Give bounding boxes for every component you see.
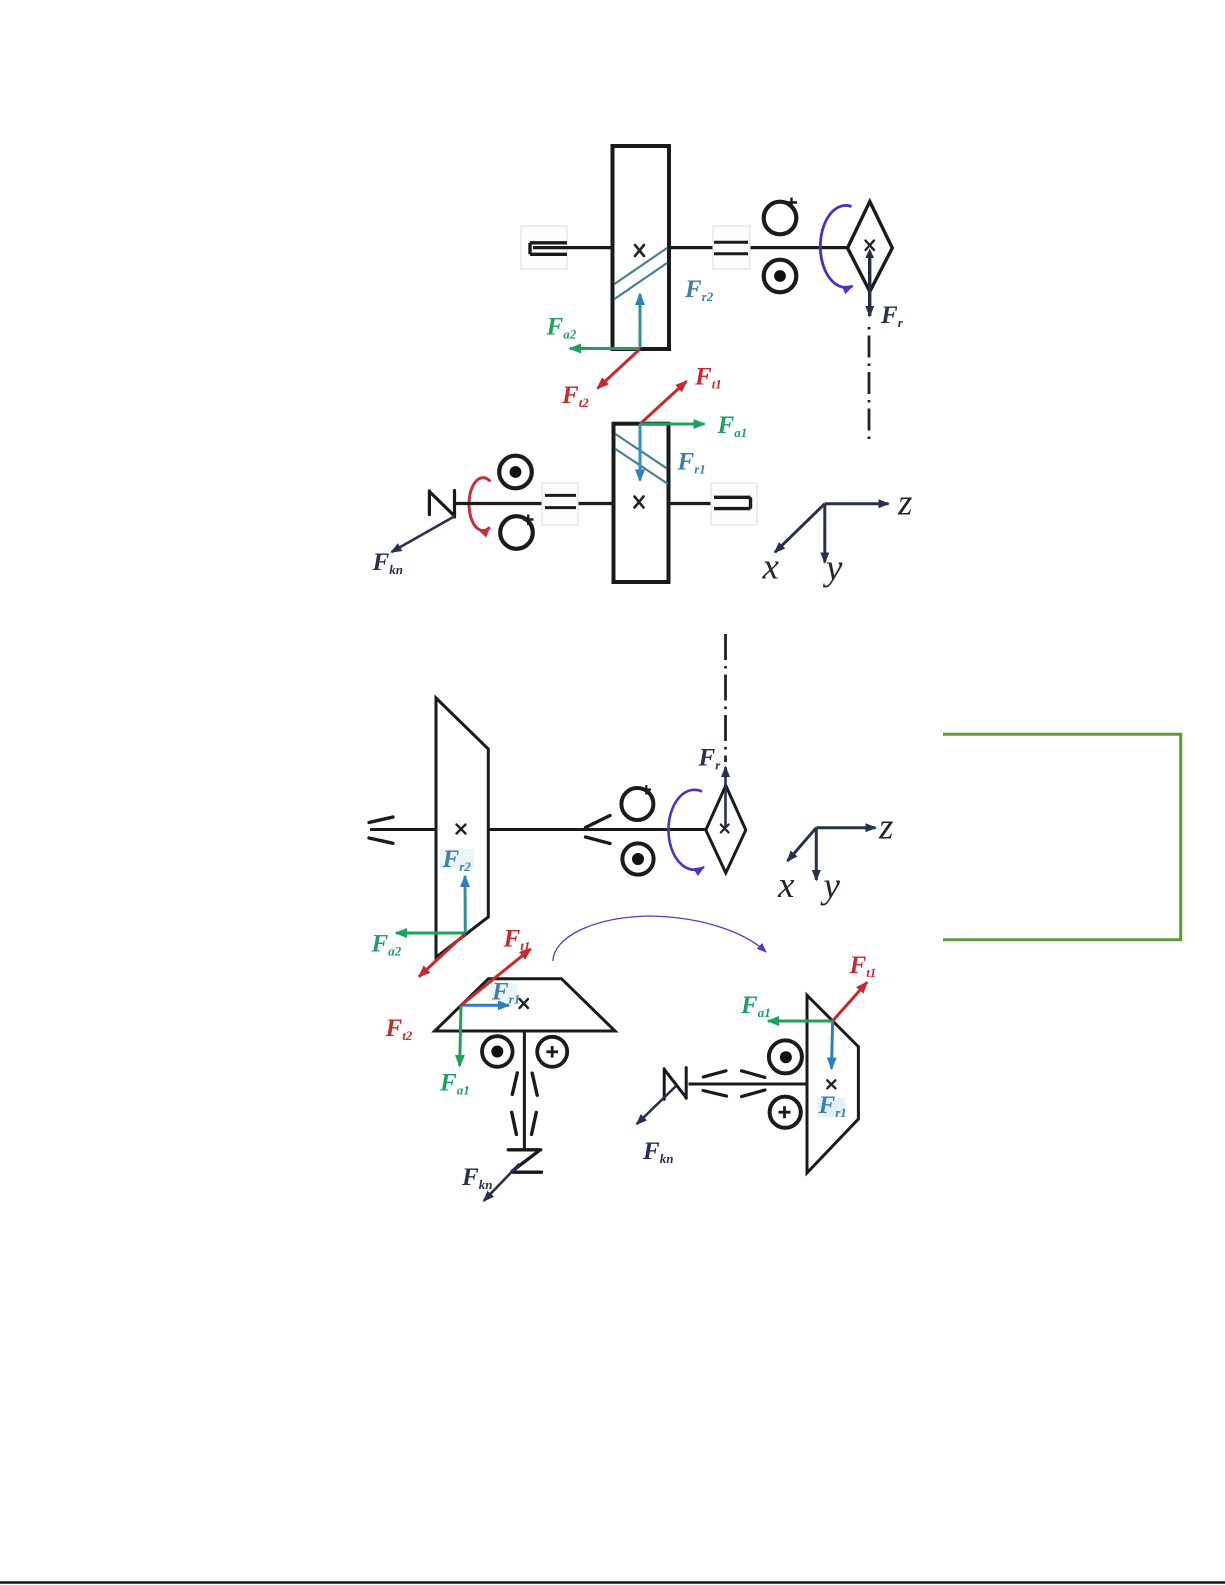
coupling N symbol (bottom-right assembly) xyxy=(664,1068,686,1100)
gear 1 body xyxy=(614,424,669,582)
gear 1 body (perspective side, bottom-right) xyxy=(807,995,858,1173)
svg-text:Ft2: Ft2 xyxy=(385,1015,413,1043)
force arrow Fr (bottom, up) xyxy=(724,767,727,827)
dot circle symbol (bottom-right, above shaft) xyxy=(769,1040,802,1073)
coordinate axes (top): z axis xyxy=(825,502,889,505)
green callout box (open left) xyxy=(943,734,1181,940)
plus circle symbol (bottom-right, below shaft) xyxy=(770,1097,801,1128)
label z (top) xyxy=(897,483,912,524)
gear 2 body xyxy=(613,146,670,349)
center mark x gear1 trapezoid xyxy=(520,999,529,1008)
force arrow Ft1 (top) xyxy=(640,381,687,424)
svg-text:Ft1: Ft1 xyxy=(503,926,531,954)
svg-text:Fa1: Fa1 xyxy=(717,412,748,440)
coordinate axes (top): x axis xyxy=(775,504,825,553)
label y (bottom) xyxy=(820,866,841,907)
force arrow Ft2 (top) xyxy=(598,349,641,388)
center mark x diamond xyxy=(866,241,875,251)
center mark x diamond (bottom) xyxy=(721,825,729,833)
svg-text:Fr2: Fr2 xyxy=(684,276,714,304)
label y (top) xyxy=(822,548,843,589)
svg-text:Fr: Fr xyxy=(698,745,722,773)
label Fr2 (bottom) xyxy=(440,846,474,874)
bearing housing box (light) shaft1 left xyxy=(542,483,578,525)
dash-dot axis line below diamond xyxy=(868,327,871,445)
label Fa1 (top) xyxy=(717,412,748,440)
force arrow Ft2 (bottom) xyxy=(419,934,465,977)
svg-text:Fr1: Fr1 xyxy=(677,449,706,477)
vertical shaft (trapezoid assembly) xyxy=(523,1031,526,1150)
force arrow Fkn (bottom-left) xyxy=(484,1164,520,1201)
svg-text:Fa2: Fa2 xyxy=(371,931,402,959)
dash-dot axis line above diamond (bottom) xyxy=(724,634,727,762)
svg-text:Fa2: Fa2 xyxy=(546,314,577,342)
force arrow Fa2 (top) xyxy=(570,347,640,350)
force arrow Fa1 (top) xyxy=(640,423,705,426)
force arrow Fr1 (bottom-right, down) xyxy=(832,1021,833,1069)
force arrow Fa1 (bottom-right) xyxy=(768,1020,833,1023)
label Fr2 (top) xyxy=(684,276,714,304)
label Fkn (bottom-right) xyxy=(642,1138,673,1166)
label Fkn (bottom-left) xyxy=(461,1164,492,1192)
label Ft1 (trapezoid) xyxy=(503,926,531,954)
coupling diamond (bottom) xyxy=(706,786,746,874)
force arrow Fr2 (top) xyxy=(639,294,642,348)
dot circle symbol (left of vertical shaft) xyxy=(482,1036,513,1067)
force arrow Ft1 (trapezoid, up-right) xyxy=(461,949,531,1005)
label Ft2 (top) xyxy=(561,382,589,410)
label Ft1 (top) xyxy=(694,364,722,392)
label Fa1 (trapezoid) xyxy=(439,1070,470,1098)
svg-text:Ft1: Ft1 xyxy=(694,364,722,392)
svg-text:Fa1: Fa1 xyxy=(740,992,771,1020)
bearing housing box (light) shaft2 right xyxy=(713,226,750,269)
rotation arrow (blue) bottom diamond xyxy=(668,790,704,870)
gear 1 trapezoid (perspective front) xyxy=(435,979,615,1031)
label Fa2 (bottom) xyxy=(371,931,402,959)
coordinate axes (top): y axis xyxy=(823,504,826,563)
horizontal shaft (bottom-right assembly) xyxy=(689,1083,808,1086)
shaft 1 right segment xyxy=(668,502,748,505)
label Fa1 (bottom-right) xyxy=(740,992,771,1020)
shaft 2 left segment xyxy=(533,246,613,249)
svg-text:z: z xyxy=(897,483,912,524)
bearing housing box (light) shaft1 right xyxy=(711,483,757,525)
svg-text:Fkn: Fkn xyxy=(642,1138,673,1166)
gear 2 body (perspective) xyxy=(436,698,488,957)
center mark x gear1 right xyxy=(827,1080,835,1088)
page bottom rule xyxy=(0,1581,1225,1584)
fixed bearing bracket shaft2 left xyxy=(530,243,567,255)
label Fa2 (top) xyxy=(546,314,577,342)
dot circle bearing symbol shaft1 top xyxy=(499,456,532,489)
bearing dashes (bottom-right shaft, perspective) xyxy=(703,1071,765,1097)
svg-text:x: x xyxy=(777,865,795,906)
svg-text:Fkn: Fkn xyxy=(461,1164,492,1192)
svg-text:Ft2: Ft2 xyxy=(561,382,589,410)
plus circle symbol (bottom shaft2 top) xyxy=(621,785,653,820)
force arrow Fkn (bottom-right) xyxy=(637,1086,676,1124)
bearing slashes left (perspective) xyxy=(369,817,393,843)
coupling diamond shaft 2 xyxy=(848,202,893,292)
bearing housing box (light) shaft2 left xyxy=(521,226,567,269)
force arrow Fa1 (trapezoid, down) xyxy=(460,1005,461,1066)
svg-text:Ft1: Ft1 xyxy=(849,952,877,980)
coordinate axes (bottom): z axis xyxy=(816,826,875,829)
label z (bottom) xyxy=(878,807,893,848)
force arrow Fr1 (top) xyxy=(639,424,642,481)
shaft 1 left segment xyxy=(455,502,614,505)
helix lines gear 2 xyxy=(615,248,668,299)
force arrow Fr (double head, top diamond) xyxy=(865,249,874,317)
svg-text:Fr: Fr xyxy=(880,302,904,330)
force arrow Fkn (top) xyxy=(392,516,456,552)
force arrow Fr1 (trapezoid) xyxy=(461,1004,509,1007)
fixed bearing bracket shaft1 right xyxy=(714,497,751,508)
plus circle symbol (right of vertical shaft) xyxy=(537,1037,567,1067)
label Fr (bottom) xyxy=(698,745,722,773)
plus circle bearing symbol shaft1 bottom xyxy=(500,515,533,549)
svg-text:z: z xyxy=(878,807,893,848)
shaft 2p left segment xyxy=(370,828,437,831)
force arrow Ft1 (bottom-right) xyxy=(833,982,867,1021)
label Fr (top) xyxy=(880,302,904,330)
loose bearing lines shaft2 right xyxy=(714,242,748,254)
label Fr1 (top) xyxy=(677,449,706,477)
center mark x gear 2p xyxy=(457,825,466,834)
rotation arrow (red) shaft 1 xyxy=(469,478,490,531)
plus circle bearing symbol shaft2 top xyxy=(764,198,797,235)
svg-text:y: y xyxy=(820,866,841,907)
bearing dashes (vertical shaft, perspective) xyxy=(512,1073,538,1135)
label x (top) xyxy=(762,547,780,588)
label x (bottom) xyxy=(777,865,795,906)
dot circle bearing symbol shaft2 bottom xyxy=(764,260,797,293)
coupling symbol N (top shaft 1) xyxy=(429,491,454,518)
loose bearing lines shaft1 left xyxy=(545,495,576,507)
force arrow Fa2 (bottom) xyxy=(396,932,465,935)
svg-text:Fa1: Fa1 xyxy=(439,1070,470,1098)
shaft 2p right segment xyxy=(488,828,706,831)
bearing slashes right (perspective) xyxy=(586,816,611,844)
label Fr1 (trapezoid) xyxy=(490,979,520,1007)
dot circle symbol (bottom shaft2 bottom) xyxy=(622,843,653,874)
svg-text:x: x xyxy=(762,547,780,588)
svg-text:Fkn: Fkn xyxy=(372,549,403,577)
rotation arrow (blue) around shaft 2 xyxy=(820,205,852,287)
label Ft1 (bottom-right) xyxy=(849,952,877,980)
label Fr1 (bottom-right) xyxy=(817,1092,847,1120)
center mark x gear 2 xyxy=(635,245,644,256)
helix lines gear 1 xyxy=(616,434,669,484)
label Fkn (top) xyxy=(372,549,403,577)
coordinate axes (bottom): x axis xyxy=(788,828,817,861)
coordinate axes (bottom): y axis xyxy=(815,828,818,880)
label Ft2 (bottom) xyxy=(385,1015,413,1043)
transfer curved arrow (violet) xyxy=(553,916,766,961)
coupling Z symbol (bottom of vertical shaft) xyxy=(508,1150,541,1172)
force arrow Fr2 (bottom) xyxy=(464,876,467,933)
shaft 2 right segment xyxy=(668,246,848,249)
center mark x gear 1 xyxy=(635,497,644,508)
svg-text:y: y xyxy=(822,548,843,589)
